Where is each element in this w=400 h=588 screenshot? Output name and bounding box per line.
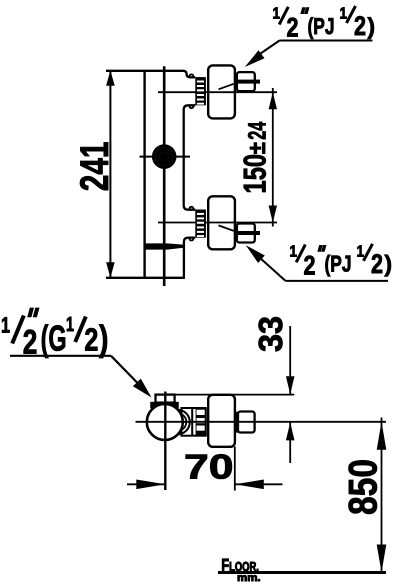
top connector centerline <box>158 91 277 93</box>
svg-text:1: 1 <box>340 6 348 23</box>
lower connector centerline <box>158 222 277 224</box>
lower connector neck flange <box>189 207 193 241</box>
top connector neck flange <box>189 74 193 108</box>
valve cap flange <box>151 403 178 408</box>
valve knob circle <box>147 404 183 440</box>
svg-text:24: 24 <box>244 122 272 140</box>
top connector union nut <box>208 65 235 118</box>
lower label leader <box>246 245 388 281</box>
valve union nut <box>208 395 235 447</box>
svg-text:): ) <box>99 318 109 359</box>
lower connector union nut <box>208 196 235 249</box>
lower connector knurl <box>195 210 206 238</box>
valve top line (33 extension) <box>175 394 295 396</box>
valve knurl divider <box>191 408 193 436</box>
top fitting mid bar with stub <box>238 80 261 84</box>
body right edge below lower connector <box>184 238 195 278</box>
knob disc <box>152 144 177 169</box>
svg-text:850: 850 <box>342 459 386 515</box>
body right edge between connectors <box>184 105 196 209</box>
svg-text:1: 1 <box>290 243 298 260</box>
dimension 850 <box>377 418 387 573</box>
svg-text:1: 1 <box>357 243 365 260</box>
body left edge <box>143 71 145 278</box>
svg-text:2: 2 <box>287 13 299 43</box>
svg-text:±: ± <box>244 142 271 154</box>
top label text 1/2"(PJ 1/2) <box>273 6 376 43</box>
svg-text:2: 2 <box>84 322 98 358</box>
top label leader <box>245 41 373 68</box>
body bottom edge + extension line <box>106 277 185 279</box>
lower label text 1/2"(PJ 1/2) <box>290 243 393 280</box>
top fitting square <box>237 72 255 91</box>
G label text 1/2"(G 1/2) <box>1 308 109 362</box>
knob crosshair horizontal <box>140 156 191 158</box>
lower nut crease diagonal <box>219 225 234 231</box>
top nut crease diagonal <box>219 84 234 90</box>
svg-text:1: 1 <box>273 6 281 23</box>
svg-text:2: 2 <box>354 11 366 41</box>
valve vertical centerline <box>164 392 166 491</box>
svg-text:2: 2 <box>371 249 383 279</box>
svg-text:33: 33 <box>253 316 290 352</box>
dimension 150+-24 line <box>269 88 277 227</box>
dimension 33 <box>286 326 295 463</box>
svg-text:1: 1 <box>66 313 74 336</box>
svg-text:): ) <box>368 13 376 39</box>
body centerline <box>163 66 166 286</box>
svg-text:150: 150 <box>237 154 273 194</box>
valve knurl <box>196 408 206 436</box>
valve knurl housing rect <box>182 408 206 436</box>
svg-text:(PJ: (PJ <box>308 13 335 39</box>
top connector knurl <box>195 77 206 105</box>
svg-text:): ) <box>385 251 393 277</box>
dimension 70 <box>127 447 283 491</box>
valve fitting stub <box>235 412 238 433</box>
valve fitting square <box>238 412 255 433</box>
body top edge + extension line <box>106 71 195 78</box>
svg-text:1: 1 <box>1 313 10 338</box>
svg-text:(G: (G <box>41 318 67 359</box>
valve horizontal centerline <box>136 421 387 423</box>
valve rear body arcs <box>165 410 190 435</box>
body bottom wedge band <box>145 243 185 249</box>
svg-text:mm.: mm. <box>237 572 261 584</box>
svg-text:(PJ: (PJ <box>325 251 352 277</box>
lower fitting square <box>237 224 255 243</box>
lower fitting mid bar with stub <box>238 231 261 235</box>
svg-text:2: 2 <box>304 250 316 280</box>
dimension 241 line with arrows <box>106 70 115 277</box>
floor line <box>218 571 386 574</box>
G label leader <box>10 356 152 398</box>
svg-text:241: 241 <box>73 142 117 192</box>
valve cap <box>156 395 175 403</box>
svg-text:70: 70 <box>184 448 234 486</box>
